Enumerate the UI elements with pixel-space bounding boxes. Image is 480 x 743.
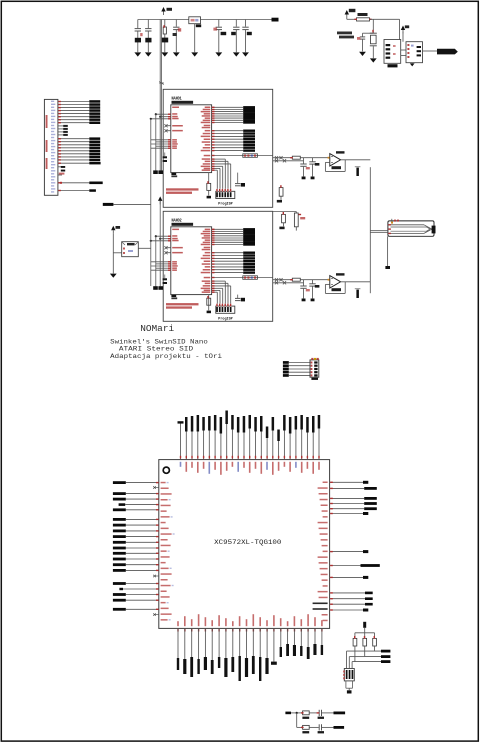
bus wire vertical 3 module1 VCC xyxy=(159,20,161,171)
power flag for oscillator xyxy=(345,10,349,15)
wire J1 A0 xyxy=(58,138,89,140)
net label TCK xyxy=(381,655,390,658)
top pin net label xyxy=(272,431,274,460)
J1 pin numbers column xyxy=(51,101,54,102)
label R12 xyxy=(300,217,305,219)
op-amp label text xyxy=(336,273,345,275)
left pin wire and net label xyxy=(126,599,159,601)
top pin net label xyxy=(283,431,285,460)
left pin wire and net label xyxy=(126,536,159,538)
J1 address stubs xyxy=(58,125,63,127)
net label A1 xyxy=(89,141,100,144)
jack ground wire xyxy=(387,236,389,266)
ground blob Cb xyxy=(311,299,315,302)
filter resistor R2f xyxy=(292,278,300,281)
svg-text:ProgISP: ProgISP xyxy=(218,202,233,207)
net label D1 xyxy=(89,103,100,106)
bus wire vertical 2 module1 xyxy=(155,114,157,170)
top pin net label xyxy=(255,432,257,460)
top pin net label xyxy=(185,432,187,460)
capacitor C5 xyxy=(218,20,220,27)
audio jack J4 body xyxy=(388,221,434,236)
filter cap Cb xyxy=(312,158,314,162)
op-amp U2b xyxy=(330,276,341,288)
wire J1 D6 xyxy=(58,119,89,121)
op-amp label text xyxy=(336,151,345,153)
capacitor C7 xyxy=(245,20,247,27)
J1 inner name text red xyxy=(46,115,48,128)
left pin wire and net label xyxy=(126,552,159,554)
left pin wire and net label xyxy=(126,498,159,500)
right pin wire and net label xyxy=(330,508,365,510)
decoupling cap near module xyxy=(163,278,167,280)
top pin net label xyxy=(197,432,199,460)
buffer U2 box xyxy=(384,40,401,64)
subtitle ATMEGA text xyxy=(172,223,194,226)
wire row2 xyxy=(297,726,303,728)
bottom pin ground xyxy=(273,628,275,661)
IC U1 ATMEGA body xyxy=(171,105,212,173)
net label D0 xyxy=(89,100,100,103)
wires U2 to U3 xyxy=(401,49,406,51)
resistor RN1 xyxy=(353,638,357,646)
left pin wire and net label xyxy=(123,588,159,590)
wire X2 clock out xyxy=(138,247,151,249)
svg-text:NANO1: NANO1 xyxy=(172,96,182,102)
wire oscillator output xyxy=(423,50,438,52)
capacitor C6 xyxy=(235,20,237,27)
driver U3 box xyxy=(406,42,423,63)
decoupling cap near module xyxy=(163,156,167,158)
net label D5 xyxy=(89,115,100,118)
net label A7 xyxy=(89,159,100,162)
wire from power flag xyxy=(346,18,348,19)
net label D6 xyxy=(89,118,100,121)
wires and net labels data group xyxy=(212,106,244,108)
left pin wire and net label xyxy=(126,509,159,511)
wire between rows xyxy=(296,713,298,728)
right pin wire and net label xyxy=(330,487,365,489)
capacitor CB2 xyxy=(318,724,320,730)
IC left pin wires to bus xyxy=(156,113,171,115)
junction marks xyxy=(273,157,293,159)
IC left pin names xyxy=(172,229,179,231)
JTAG wires down xyxy=(346,651,348,668)
net label A2 xyxy=(89,144,100,147)
wire row1 xyxy=(291,712,302,714)
J1 wire phi2 xyxy=(58,190,89,192)
J5 colored top marks xyxy=(311,358,313,360)
wire J1 A6 xyxy=(58,156,89,158)
left unconnected pin marks xyxy=(155,487,159,489)
wire RN3 to label xyxy=(374,646,376,651)
right pin wire and net label xyxy=(330,551,363,553)
wires and net labels address group xyxy=(212,130,244,132)
IC left lower wires xyxy=(151,139,171,141)
ground blob Ca xyxy=(302,177,306,180)
op-amp output wire xyxy=(341,281,371,283)
junction tick xyxy=(159,82,164,84)
top pin net label xyxy=(260,432,262,460)
right inner pin names xyxy=(323,482,328,484)
svg-text:ProgISP: ProgISP xyxy=(218,316,233,321)
bottom pin net label xyxy=(198,628,200,659)
filter cap Ca xyxy=(303,158,305,164)
top pin net label xyxy=(214,431,216,460)
module NANO1 outer box xyxy=(163,89,273,207)
ground blob Ca xyxy=(302,299,306,302)
boxed net label EXT xyxy=(212,277,273,279)
net label out R xyxy=(334,726,345,729)
J1 capacitor stub xyxy=(58,166,61,168)
resistor R10 mix xyxy=(279,188,283,197)
net label phi2 xyxy=(89,189,96,192)
top pin net label xyxy=(318,429,320,460)
resistor RB2 xyxy=(303,725,310,729)
junction marks xyxy=(273,279,293,281)
oscillator X2 box xyxy=(122,242,139,257)
feedback wire xyxy=(344,282,346,294)
op-amp output wire xyxy=(341,159,371,161)
ground under crystal xyxy=(370,58,377,62)
U2 designator text xyxy=(388,64,398,67)
resistor R5 xyxy=(357,18,370,21)
left pin wire and net label xyxy=(126,482,159,484)
right pin wire and net label xyxy=(330,497,365,499)
ground for R2 xyxy=(161,52,168,56)
net label A0 xyxy=(89,137,100,140)
right pin wire and net label xyxy=(330,603,365,605)
left pin wire and net label xyxy=(126,583,159,585)
bottom pin net label xyxy=(225,628,227,658)
net label out L xyxy=(334,712,346,715)
pin1 marker circle xyxy=(163,467,169,473)
op-amp U1b xyxy=(330,154,341,166)
net label D4 xyxy=(89,112,100,115)
IC bottom right bus wires xyxy=(212,158,226,160)
net label at rail end xyxy=(272,18,279,22)
bus gnd square 2 xyxy=(158,170,163,174)
wire J1 D3 xyxy=(58,110,89,112)
wire to buffer xyxy=(370,18,400,20)
wire J1 D4 xyxy=(58,113,89,115)
inductor L1 ferrite bead xyxy=(189,17,201,24)
crystal Y1 xyxy=(370,32,377,34)
bottom pin short net label xyxy=(280,628,282,647)
resistor R11 mix xyxy=(282,214,286,222)
left pin wire and net label xyxy=(126,608,159,610)
CPLD U5 body xyxy=(159,460,330,629)
IC bottom-left ground pin text xyxy=(171,173,176,175)
bottom pin net label xyxy=(232,628,234,657)
svg-text:NANO2: NANO2 xyxy=(172,218,182,224)
wire BREAK to bus xyxy=(113,203,150,205)
wire X2 power xyxy=(112,234,114,274)
net label D7 xyxy=(89,122,100,125)
bottom pin short net label xyxy=(287,628,289,644)
audio bus vertical wire xyxy=(369,167,371,293)
filter cap Cb xyxy=(312,280,314,284)
left pin wire and net label xyxy=(126,524,159,526)
wires and net labels address group xyxy=(212,252,244,254)
right pin wire and net label xyxy=(330,609,363,611)
wire VCC feed to module NANO1 xyxy=(161,20,163,171)
JTAG connector J6 xyxy=(344,669,354,681)
subtitle ATMEGA text xyxy=(172,101,194,104)
net label D3 xyxy=(89,109,100,112)
top pin net label xyxy=(220,434,222,460)
ground for C7 xyxy=(242,52,249,56)
ground blob under resistor xyxy=(207,196,211,199)
power flag for X2 xyxy=(111,226,115,231)
pullup resistor under IC xyxy=(208,295,210,306)
bottom pin net label xyxy=(259,628,261,657)
power rail net VCC xyxy=(138,19,189,21)
bottom pin net label xyxy=(184,628,186,659)
left pin wire and net label xyxy=(126,569,159,571)
top pin 1 stub xyxy=(180,423,182,460)
wire J1 A4 xyxy=(58,150,89,152)
junction xyxy=(296,712,298,714)
ground for C3 xyxy=(173,52,180,56)
IC right pin names xyxy=(205,229,211,231)
net label RW xyxy=(89,182,102,185)
bottom pin net label xyxy=(252,628,254,656)
bottom pin net label xyxy=(246,628,248,658)
capacitor C1 xyxy=(137,20,139,29)
net label A5 xyxy=(89,153,100,156)
left pin wire and net label xyxy=(126,541,159,543)
note text red xyxy=(166,188,199,190)
bottom pin short net label xyxy=(293,628,295,645)
bottom pin net label xyxy=(204,628,206,657)
ISP header J2 xyxy=(216,191,235,198)
oscillator frequency text xyxy=(337,32,352,35)
wire J1 D5 xyxy=(58,116,89,118)
bus wire vertical 1 xyxy=(150,119,152,286)
IC left pin wires to bus xyxy=(156,235,171,237)
IC no-connect stubs xyxy=(167,247,171,249)
top pin net label xyxy=(231,430,233,460)
net label CS xyxy=(89,162,100,165)
J1 stub with text xyxy=(58,174,62,176)
wire J1 A2 xyxy=(58,144,89,146)
J6 shell xyxy=(345,681,347,688)
ground for C6 xyxy=(233,52,240,56)
wire X2 enable xyxy=(113,252,121,254)
jack pin marks xyxy=(388,224,391,225)
CPLD bottom pins xyxy=(177,629,178,632)
resistor R2 xyxy=(164,20,166,28)
right pin wire and net label xyxy=(330,576,363,578)
left pin wire and net label xyxy=(126,530,159,532)
net label TDI xyxy=(381,660,390,663)
J5 net label stack xyxy=(283,361,289,364)
wire RN2 to label xyxy=(364,646,366,657)
bottom pin net label xyxy=(218,628,220,657)
bottom pin short net label xyxy=(300,628,302,646)
net label A3 xyxy=(89,147,100,150)
left inner pin names xyxy=(161,482,166,484)
IC bottom right bus wires xyxy=(212,280,226,282)
resistor RB1 xyxy=(303,711,310,715)
ground for X2 xyxy=(110,274,117,278)
top pin net label xyxy=(312,433,314,460)
top pin net label xyxy=(295,430,297,460)
svg-text:Adaptacja projektu - tOri: Adaptacja projektu - tOri xyxy=(110,353,222,361)
gnd squares module2 xyxy=(153,286,158,290)
wire to label xyxy=(322,712,334,714)
ground blob under resistor xyxy=(207,311,211,314)
bottom pin net label xyxy=(239,628,241,656)
label R10 xyxy=(277,200,282,203)
net label VCC vertical xyxy=(363,622,366,628)
top pin net label xyxy=(249,429,251,460)
J5 wires xyxy=(289,362,310,364)
power flag VCC xyxy=(161,7,165,12)
wire J1 D2 xyxy=(58,107,89,109)
bottom pin net label xyxy=(211,628,213,660)
left pin wire and net label xyxy=(126,493,159,495)
svg-text:NOMari: NOMari xyxy=(140,323,174,334)
left pin wire and net label xyxy=(126,558,159,560)
svg-text:XC9572XL-TQG100: XC9572XL-TQG100 xyxy=(214,539,281,547)
capacitor near ProgISP xyxy=(237,295,239,298)
top pin net label xyxy=(191,432,193,460)
wire left audio to jack xyxy=(370,230,388,232)
top pin net label xyxy=(203,431,205,460)
output net label vertical xyxy=(356,168,359,176)
net label A6 xyxy=(89,156,100,159)
output net label vertical xyxy=(356,290,359,298)
wire J1 D1 xyxy=(58,104,89,106)
filter cap Ca xyxy=(303,280,305,286)
wire mix feed xyxy=(273,211,297,213)
wires and net labels data group xyxy=(212,228,244,230)
top pin net label xyxy=(243,433,245,460)
wire J1 D0 xyxy=(58,101,89,103)
filter resistor R1f xyxy=(292,156,300,159)
bottom pin net label xyxy=(191,628,193,657)
global label CLK output xyxy=(437,49,458,55)
bus gnd square xyxy=(153,170,158,174)
IC right pin names xyxy=(205,107,211,109)
left pin wire and net label xyxy=(126,594,159,596)
top pin net label xyxy=(237,433,239,460)
right pin wire and net label xyxy=(330,481,363,483)
bottom pin net label xyxy=(177,628,179,658)
left pin wire and net label xyxy=(126,547,159,549)
resistor R12 mix xyxy=(295,212,297,214)
connector J1 edge header xyxy=(44,99,58,195)
label R11 xyxy=(279,227,284,230)
pullup resistor under IC xyxy=(208,173,210,184)
wire down to rail xyxy=(364,628,366,639)
top pin net label xyxy=(289,434,291,460)
ground near U3 xyxy=(410,63,415,66)
capacitor C2 xyxy=(147,20,149,29)
bottom pin short net label xyxy=(314,628,316,644)
bottom pin short net label xyxy=(321,628,323,645)
J6 ground blob xyxy=(347,690,352,693)
wire J1 A1 xyxy=(58,141,89,143)
resistor rail xyxy=(355,632,375,634)
capacitor near ProgISP xyxy=(237,173,239,184)
ground for C1 xyxy=(134,52,141,56)
wire J1 A7 xyxy=(58,159,89,161)
bus wire vertical 2 module2 xyxy=(155,236,157,286)
capacitor CB1 xyxy=(318,710,320,716)
right pin wire and net label xyxy=(330,592,365,594)
ground under L1 xyxy=(191,52,198,56)
IC bottom-left ground pin text xyxy=(171,295,176,297)
ground for C5 xyxy=(215,52,222,56)
net label audio L in xyxy=(285,712,291,715)
capacitor C3 xyxy=(175,20,177,27)
note text red xyxy=(166,303,199,305)
J1 wire RW xyxy=(58,182,89,184)
resistor RN3 xyxy=(373,638,377,646)
J5 designator label xyxy=(311,378,318,380)
IC no-connect stubs xyxy=(167,125,171,127)
wire J1 D7 xyxy=(58,122,89,124)
wire to crystal xyxy=(372,19,374,33)
right pin wire and net label xyxy=(330,565,361,567)
wire xyxy=(309,712,319,714)
top pin net label xyxy=(301,430,303,460)
top pin net label xyxy=(208,431,210,460)
feedback wire xyxy=(344,160,346,172)
capacitor C8 on crystal xyxy=(363,32,374,34)
power flag U3 xyxy=(401,26,405,31)
net label D2 xyxy=(89,106,100,109)
left pin wire and net label xyxy=(126,564,159,566)
left pin wire and net label xyxy=(125,504,159,506)
net label A4 xyxy=(89,150,100,153)
module NANO2 outer box xyxy=(163,211,273,321)
jack ground blob xyxy=(385,266,390,269)
top pin net label low xyxy=(266,438,268,460)
left pin wire and net label xyxy=(126,518,159,520)
wire J1 A5 xyxy=(58,153,89,155)
ground for C8 xyxy=(359,52,366,56)
wire RN1 to label xyxy=(354,646,356,662)
right pin wire and net label xyxy=(330,503,365,505)
resistor RN2 xyxy=(363,638,367,646)
top pin net label lower xyxy=(278,441,280,460)
IC left pin names xyxy=(172,107,179,109)
boxed net label EXT xyxy=(212,155,273,157)
jack plug tip lines xyxy=(391,224,425,226)
bus wire vertical module2 VCC xyxy=(159,201,161,287)
jack sleeve contact xyxy=(432,226,436,234)
power flag module2 xyxy=(158,196,162,201)
J5 body xyxy=(310,360,319,377)
bottom pin net label xyxy=(266,628,268,658)
IC U2 ATMEGA body xyxy=(171,227,212,295)
J1 wire CS xyxy=(58,162,89,164)
top pin net label xyxy=(306,433,308,460)
ground blob Cb xyxy=(311,177,315,180)
right pin wire and net label xyxy=(330,598,365,600)
IC left lower wires xyxy=(151,261,171,263)
net label BREAK xyxy=(103,203,114,206)
wire right audio to jack xyxy=(370,232,388,234)
wire J1 A3 xyxy=(58,147,89,149)
bottom pin short net label xyxy=(307,628,309,647)
ground for C2 xyxy=(145,52,152,56)
right pin wire and net label xyxy=(330,513,363,515)
